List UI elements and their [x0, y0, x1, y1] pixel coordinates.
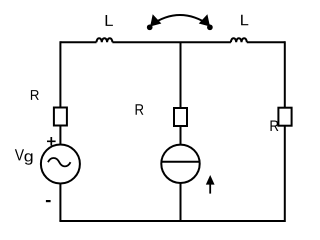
wire left branch lower: [59, 184, 61, 222]
resistor R2 (middle): [174, 108, 187, 126]
wire bottom horizontal: [59, 220, 284, 222]
plus sign of Vg: [47, 137, 56, 146]
current source direction arrow: [209, 183, 211, 194]
label L of left inductor: [106, 15, 113, 26]
coupling arc right dot: [207, 24, 213, 30]
wire left branch upper: [59, 41, 61, 107]
label Vg letter g: [25, 153, 33, 165]
label Vg letter V: [15, 149, 24, 160]
wire right branch lower: [284, 126, 286, 222]
inductor L1: [97, 38, 113, 42]
current source I1 circle: [161, 145, 199, 183]
label R of left resistor: [31, 90, 39, 100]
wire top-right horizontal: [247, 41, 285, 43]
resistor R3 (right): [278, 108, 291, 126]
current source horizontal bar: [161, 161, 199, 163]
wire top-left horizontal: [60, 41, 96, 43]
inductor L2: [231, 38, 247, 42]
wire right branch upper: [284, 41, 286, 107]
wire middle branch between R and source: [180, 126, 182, 145]
coupling arc between L1 and L2: [151, 15, 209, 25]
label L of right inductor: [241, 15, 248, 25]
voltage source Vg circle: [41, 145, 80, 184]
coupling arc left arrowhead: [151, 15, 161, 25]
minus sign of Vg: [46, 200, 51, 202]
wire middle branch upper: [180, 42, 182, 108]
label R of middle resistor: [136, 104, 144, 115]
wire top-middle horizontal: [112, 41, 230, 43]
voltage source sine wave: [48, 158, 71, 166]
wire middle branch lower: [180, 183, 182, 221]
label R of right resistor: [271, 121, 279, 132]
resistor R1 (left): [54, 108, 67, 126]
coupling arc left dot: [147, 24, 153, 30]
coupling arc right arrowhead: [200, 15, 210, 25]
wire left branch between R and source: [59, 126, 61, 146]
